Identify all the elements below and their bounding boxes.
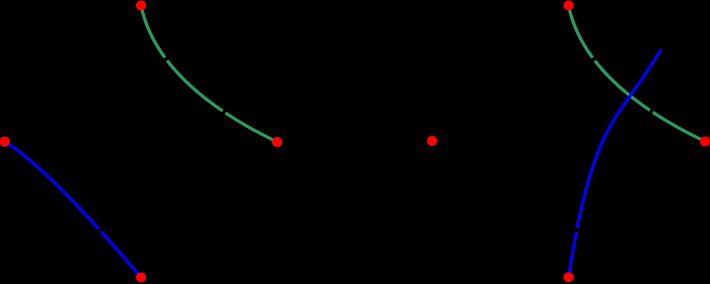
node: red dot top-left (green curve start)	[136, 0, 146, 10]
node: red dot far left (blue line start)	[0, 137, 10, 147]
node: red dot top-right (green curve start)	[563, 0, 573, 10]
edge: green curve left (dashed)	[141, 6, 277, 143]
node: red dot bottom-left (blue line end)	[136, 272, 146, 282]
node: red dot left-middle (green curve end)	[272, 137, 282, 147]
node: red dot bottom-right (blue curve end)	[563, 272, 573, 282]
node: red dot far right (green curve end)	[700, 136, 710, 146]
edge: blue line left (dashed, slight bow)	[5, 142, 141, 278]
edge: blue curve right (dashed)	[569, 49, 662, 277]
edge: green curve right (dashed)	[569, 6, 706, 142]
node: red dot center (isolated)	[427, 136, 437, 146]
